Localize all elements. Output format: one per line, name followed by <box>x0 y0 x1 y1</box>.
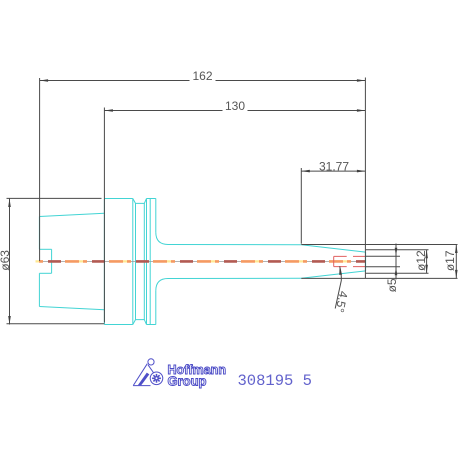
dim 162 line left part <box>40 80 190 82</box>
flange left face <box>103 199 105 325</box>
flange bottom left segment <box>104 324 132 326</box>
flange bottom right segment <box>147 324 156 326</box>
dim 162 extension left <box>39 78 41 261</box>
svg-text:162: 162 <box>192 69 212 83</box>
dim d12 extension top <box>366 249 429 251</box>
dim 31.77 line <box>301 170 365 172</box>
dim d17 line <box>455 245 457 279</box>
logo gear hub <box>155 377 158 380</box>
flange top left segment <box>104 198 132 200</box>
dim d63 line <box>9 199 11 325</box>
dim d5 extension bottom <box>366 266 400 268</box>
arrow d17 top <box>455 245 458 254</box>
dim d17 extension bottom <box>301 277 457 279</box>
logo baseline foot <box>133 385 150 387</box>
flange V-groove top <box>133 199 147 204</box>
clamping bore hidden line bottom <box>334 266 366 268</box>
arrow leader 4.5deg <box>339 266 342 275</box>
svg-text:130: 130 <box>225 99 245 113</box>
logo back line <box>133 364 147 386</box>
svg-text:Group: Group <box>168 374 207 388</box>
arrow 162 right <box>357 79 366 82</box>
shared right extension line <box>364 78 366 279</box>
arrow d63 top <box>8 199 11 208</box>
flange V-groove bottom <box>133 320 147 325</box>
logo gear star <box>152 374 161 383</box>
dim d5 extension top <box>366 255 400 257</box>
svg-text:308195 5: 308195 5 <box>238 372 312 390</box>
arrow d17 bottom <box>455 270 458 279</box>
arrow d12 top <box>425 250 428 258</box>
flange witness line 2 <box>135 203 137 319</box>
flange top right segment <box>147 198 156 200</box>
flange witness line 5 <box>149 199 151 325</box>
centerline dark red dashes <box>36 260 366 263</box>
dim d17 extension top <box>301 244 457 246</box>
dim d12 line <box>426 250 428 273</box>
dim 130 line left part <box>104 110 222 112</box>
dimension arrowheads <box>8 79 457 324</box>
flange witness line 3 <box>143 203 145 319</box>
flange right face lower <box>155 291 157 325</box>
svg-text:ø17: ø17 <box>443 250 457 271</box>
dim 162 line right part <box>216 80 366 82</box>
arrow 162 left <box>40 79 49 82</box>
arrow d12 bottom <box>425 265 428 274</box>
shank taper top <box>39 213 104 216</box>
shank taper bottom <box>39 307 104 310</box>
nose cone top <box>301 245 365 252</box>
back bore notch bottom <box>39 272 51 274</box>
arrow 31.77 right <box>357 170 366 173</box>
neck fillet bottom <box>156 279 168 291</box>
logo head circle <box>148 359 154 365</box>
dim d63 extension bottom <box>7 323 105 325</box>
clamping bore end face <box>333 256 335 266</box>
dimension lines (dark grey) <box>7 78 458 325</box>
centerline orange dashes <box>36 260 366 263</box>
dim 31.77 extension left <box>300 168 302 244</box>
logo wheel circle <box>150 372 163 385</box>
neck bottom <box>168 277 301 279</box>
arrow 31.77 left <box>301 170 310 173</box>
svg-text:4.5°: 4.5° <box>332 290 350 314</box>
svg-text:ø12: ø12 <box>414 250 428 271</box>
back bore notch face <box>51 249 53 273</box>
centerline yellow dashes <box>36 260 366 262</box>
centerline base (grey) <box>36 260 366 262</box>
arrow 130 left <box>104 109 113 112</box>
flange witness line 4 <box>146 199 148 325</box>
back bore notch top <box>39 248 51 250</box>
dim 130 extension left <box>103 108 105 323</box>
svg-text:ø63: ø63 <box>0 250 12 271</box>
shank left face upper <box>38 217 40 250</box>
shank left face lower <box>38 273 40 306</box>
leader line 4.5deg <box>335 266 341 308</box>
flange witness line 1 <box>132 199 134 325</box>
arrow 130 right <box>357 109 366 112</box>
tool body outline (cyan) <box>39 199 365 325</box>
logo arm line <box>148 365 153 373</box>
svg-text:31.77: 31.77 <box>319 159 349 173</box>
dim d5 line <box>395 244 397 280</box>
flange right face upper <box>155 199 157 233</box>
neck fillet top <box>156 232 168 244</box>
dim d12 extension bottom <box>366 272 429 274</box>
clamping bore hidden line top <box>334 255 366 257</box>
logo front leg (filled) <box>138 373 150 386</box>
arrow d5 top outside <box>395 248 398 256</box>
dim 130 line right part <box>248 110 366 112</box>
arrow d5 bottom outside <box>395 267 398 276</box>
dimension texts <box>0 69 457 314</box>
svg-text:ø5: ø5 <box>385 278 399 292</box>
nose cone bottom <box>301 271 365 278</box>
dim d63 extension top <box>7 197 102 199</box>
neck top <box>168 244 301 246</box>
Hoffmann Group logo icon <box>133 359 163 386</box>
tip face <box>365 252 367 271</box>
arrow d63 bottom <box>8 316 11 325</box>
